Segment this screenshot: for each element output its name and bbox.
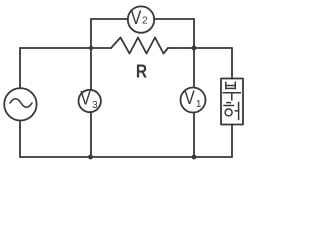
svg-text:V: V xyxy=(80,89,91,110)
wire V3 branch upper xyxy=(90,48,92,90)
junction node top-right (V1/V2 tap) xyxy=(192,46,197,51)
wire V2-loop left vertical xyxy=(90,19,92,48)
wire V2-loop left horizontal xyxy=(91,18,128,20)
junction node bottom-left (V3 tap) xyxy=(88,155,93,160)
wire left vertical upper xyxy=(19,48,21,88)
hangul 부 (load text top) xyxy=(223,82,240,100)
svg-text:V: V xyxy=(131,8,142,29)
load box xyxy=(221,79,243,125)
svg-text:3: 3 xyxy=(92,100,98,111)
junction node bottom-right (V1 tap) xyxy=(192,155,197,160)
wire V3 branch lower xyxy=(90,112,92,157)
label V2 xyxy=(131,8,148,29)
AC source sine wave xyxy=(10,99,32,108)
wire V1 branch upper xyxy=(193,48,195,88)
svg-text:V: V xyxy=(184,88,195,109)
svg-text:2: 2 xyxy=(142,15,148,27)
label V1 xyxy=(184,88,202,110)
label V3 xyxy=(80,89,98,112)
wire right vertical to load top xyxy=(231,48,233,79)
svg-text:1: 1 xyxy=(196,99,202,110)
wire V1 branch lower xyxy=(193,113,195,158)
wire top-right horizontal xyxy=(168,47,232,49)
junction node top-left (V3/V2 tap) xyxy=(89,46,93,50)
voltmeter V3 circle xyxy=(79,90,101,112)
wire V2-loop right horizontal xyxy=(154,18,194,20)
voltmeter V1 circle xyxy=(181,88,206,113)
voltmeter V2 circle xyxy=(128,6,154,32)
wire top-left horizontal xyxy=(20,47,111,49)
AC source circle xyxy=(4,88,36,120)
wire left vertical lower xyxy=(19,121,21,158)
svg-text:R: R xyxy=(136,62,147,82)
hangul 하 (load text bottom) xyxy=(224,102,239,119)
wire load bottom to bottom rail xyxy=(231,125,233,158)
wire bottom rail xyxy=(20,156,232,158)
wire V2-loop right vertical xyxy=(193,19,195,48)
resistor R xyxy=(111,38,168,54)
